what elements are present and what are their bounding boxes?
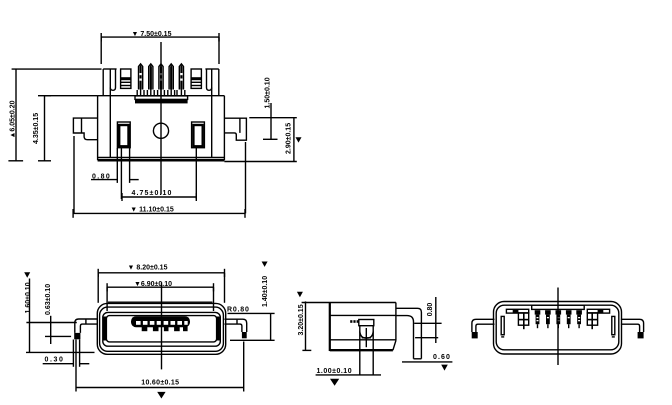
front insulator top edge (108, 301, 212, 303)
svg-text:4.35±0.15: 4.35±0.15 (33, 113, 40, 144)
dimension 1.60±0.10 flag triangle (24, 272, 30, 277)
dimension 6.05±0.20 (8, 69, 101, 161)
shell left U-fold (110, 69, 115, 90)
right mounting tab (224, 118, 246, 140)
dimension 6.90±0.10 (107, 283, 213, 311)
svg-text:R0.80: R0.80 (227, 306, 250, 313)
rear pin 4 (566, 310, 572, 328)
vertical centerline (top view) (160, 42, 162, 195)
front left leg (74, 319, 97, 339)
insulator black bar (135, 99, 188, 103)
front shell outer (97, 303, 225, 354)
dimension 4.75±0.10 (122, 193, 196, 201)
dimension 11.10±0.15 (73, 136, 245, 218)
svg-text:0.63±0.10: 0.63±0.10 (45, 284, 52, 315)
body outline (98, 96, 225, 161)
dimension 1.60±0.10 (26, 279, 95, 353)
front opening right wall (216, 317, 220, 341)
dimension 1.00 flag triangle (330, 379, 339, 386)
shell right fold ladder (191, 69, 201, 88)
shell left fold ladder (121, 69, 131, 88)
dimension 10.60 flag triangle (157, 392, 165, 399)
svg-text:1.40±0.10: 1.40±0.10 (262, 276, 269, 307)
svg-text:10.60±0.15: 10.60±0.15 (141, 379, 179, 386)
svg-text:▼6.90±0.10: ▼6.90±0.10 (134, 281, 172, 288)
side contact detail (350, 320, 374, 375)
rear pin 3 (556, 310, 562, 328)
svg-text:1.50±0.10: 1.50±0.10 (265, 77, 272, 108)
dimension 0.80 (side) (414, 297, 441, 343)
svg-text:0.30: 0.30 (45, 357, 65, 364)
dimension 10.60±0.15 (76, 387, 244, 389)
svg-text:0.80: 0.80 (92, 173, 111, 180)
svg-text:1.00±0.10: 1.00±0.10 (317, 368, 353, 375)
svg-text:2.90±0.15: 2.90±0.15 (286, 123, 293, 154)
rear pin 2 (545, 310, 551, 328)
dimension 0.30 (43, 363, 90, 365)
front right leg (225, 319, 247, 338)
rear shell outer (494, 302, 622, 355)
svg-text:0.80: 0.80 (427, 303, 434, 317)
rear pin 5 (576, 310, 582, 328)
terminal pin 5 (top view) (177, 64, 185, 96)
dimension 1.50±0.10 (249, 103, 296, 139)
svg-text:▲6.05±0.20: ▲6.05±0.20 (10, 100, 17, 138)
terminal pin 2 (top view) (147, 64, 154, 96)
front opening outer (103, 312, 221, 346)
tongue teeth (142, 326, 188, 331)
svg-text:▼ 11.10±0.15: ▼ 11.10±0.15 (130, 207, 174, 214)
rear view centerline (557, 288, 559, 366)
svg-text:▼ 7.50±0.15: ▼ 7.50±0.15 (132, 31, 172, 38)
svg-text:0.60: 0.60 (433, 354, 451, 361)
dimension 1.40±0.10 flag triangle (262, 262, 268, 267)
dimension 0.60 (side) (402, 361, 452, 363)
side leg (396, 308, 422, 359)
rear pin 1 (535, 310, 541, 328)
front view centerline (161, 282, 163, 369)
rear tray (532, 305, 585, 309)
left slot (117, 122, 130, 148)
foot extension lines (73, 340, 243, 392)
svg-text:4.75±0.10: 4.75±0.10 (132, 190, 173, 197)
front opening left wall (103, 317, 107, 341)
left mounting tab (73, 118, 97, 140)
center hole circle (153, 123, 168, 138)
right slot (192, 122, 205, 148)
front opening inner (106, 316, 216, 342)
dimension 1.40±0.10 (228, 313, 275, 340)
front shell inner line (100, 307, 224, 351)
tongue (131, 316, 190, 331)
rear latch left (501, 309, 529, 337)
svg-text:1.60±0.10: 1.60±0.10 (25, 282, 32, 313)
dimension 7.50±0.15 dim line (101, 33, 219, 64)
dimension 4.35±0.15 (38, 96, 98, 161)
insulator band (135, 96, 188, 100)
dimension 0.80 (91, 179, 139, 181)
terminal pin 1 (top view) (137, 64, 144, 96)
dimension 8.20±0.15 (98, 269, 224, 303)
slot extension lines (117, 148, 196, 199)
dimension 1.00±0.10 (316, 374, 381, 376)
rear right leg (621, 319, 644, 338)
dimension 3.20±0.15 flag triangle (297, 292, 303, 297)
rear latch right (587, 309, 615, 337)
svg-text:▼ 8.20±0.15: ▼ 8.20±0.15 (128, 264, 168, 271)
shell right U-fold (207, 69, 212, 90)
svg-text:3.20±0.15: 3.20±0.15 (298, 304, 305, 335)
dimension 3.20±0.15 (302, 301, 311, 350)
terminal pin 3 (top view) (158, 64, 165, 96)
dimension 2.90 flag triangle (296, 137, 302, 142)
terminal pin 4 (top view) (168, 64, 175, 96)
dimension 2.90±0.15 (224, 118, 296, 162)
shell left wall (103, 69, 131, 96)
dimension 0.60 flag triangle (441, 365, 448, 371)
shell right wall (191, 69, 219, 96)
rear shell inner (496, 305, 619, 350)
rear left leg (472, 319, 495, 338)
dimension 0.63±0.10 (45, 316, 71, 344)
side body (302, 302, 397, 351)
